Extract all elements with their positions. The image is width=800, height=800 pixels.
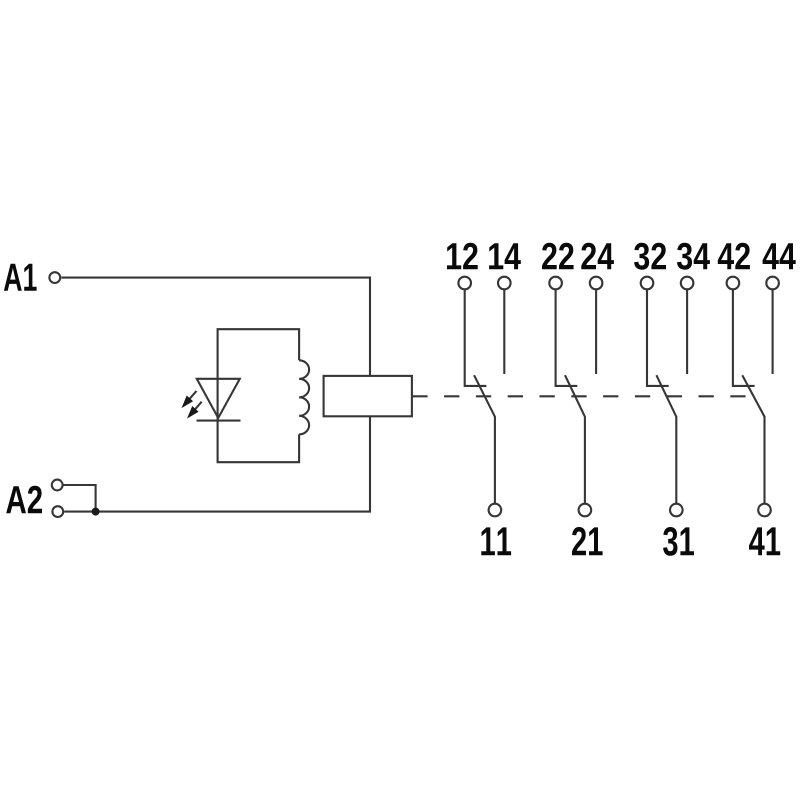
label 21 — [572, 527, 603, 555]
node junction dot on A2 wire — [92, 508, 100, 516]
label 12 — [447, 243, 478, 269]
contact set 1: common terminal 11 — [489, 504, 502, 517]
label 44 — [763, 243, 796, 269]
contact set 3: movable arm — [656, 375, 676, 503]
label 14 — [489, 243, 521, 269]
label 22 — [542, 243, 574, 269]
LED D1 triangle — [197, 379, 240, 418]
wire relay box K1 to node A2 — [64, 416, 370, 511]
LED arrow 2 — [195, 402, 202, 410]
contact set 2: movable arm — [565, 375, 585, 503]
contact set 1: NC terminal 12 — [458, 277, 471, 290]
terminal A2 lower — [52, 506, 63, 517]
wire 24 down — [595, 290, 597, 374]
wire 12 down — [465, 290, 487, 386]
coil L1 (4 bumps on right edge) — [299, 360, 309, 434]
LED D1 cathode bar — [197, 420, 241, 422]
relay box K1 — [324, 376, 412, 416]
contact set 1: NO terminal 14 — [498, 277, 511, 290]
contact set 1: movable arm — [474, 375, 495, 503]
wire 22 down — [556, 290, 578, 386]
label 42 — [718, 243, 750, 269]
label A2 — [6, 486, 42, 513]
terminal A2 upper — [52, 480, 63, 491]
contact set 3: NO terminal 34 — [681, 277, 694, 290]
label 41 — [749, 527, 780, 555]
contact set 3: NC terminal 32 — [641, 277, 654, 290]
terminal A1 — [49, 272, 60, 283]
contact set 3: common terminal 31 — [670, 504, 683, 517]
contact set 4: movable arm — [742, 375, 764, 503]
label 24 — [581, 243, 614, 269]
contact set 2: NC terminal 22 — [549, 277, 562, 290]
contact set 4: common terminal 41 — [758, 504, 771, 517]
label 31 — [663, 527, 694, 556]
label 11 — [481, 527, 511, 555]
contact set 4: NO terminal 44 — [766, 277, 779, 290]
contact set 2: common terminal 21 — [579, 504, 592, 517]
dashed actuation line — [412, 395, 753, 397]
wire 14 down — [503, 290, 505, 374]
contact set 4: NC terminal 42 — [727, 277, 740, 290]
contact set 2: NO terminal 24 — [590, 277, 603, 290]
label 34 — [677, 243, 710, 270]
wire 32 down — [647, 290, 669, 386]
label 32 — [634, 243, 666, 270]
LED arrow 1 — [190, 391, 197, 399]
wire 42 down — [733, 290, 755, 386]
wire 34 down — [686, 290, 688, 374]
label A1 — [4, 264, 37, 291]
wire 44 down — [772, 290, 774, 374]
LED/coil box outline — [218, 329, 300, 462]
wire A2 upper to node — [64, 485, 96, 512]
wire A1 to relay box K1 — [61, 278, 370, 376]
